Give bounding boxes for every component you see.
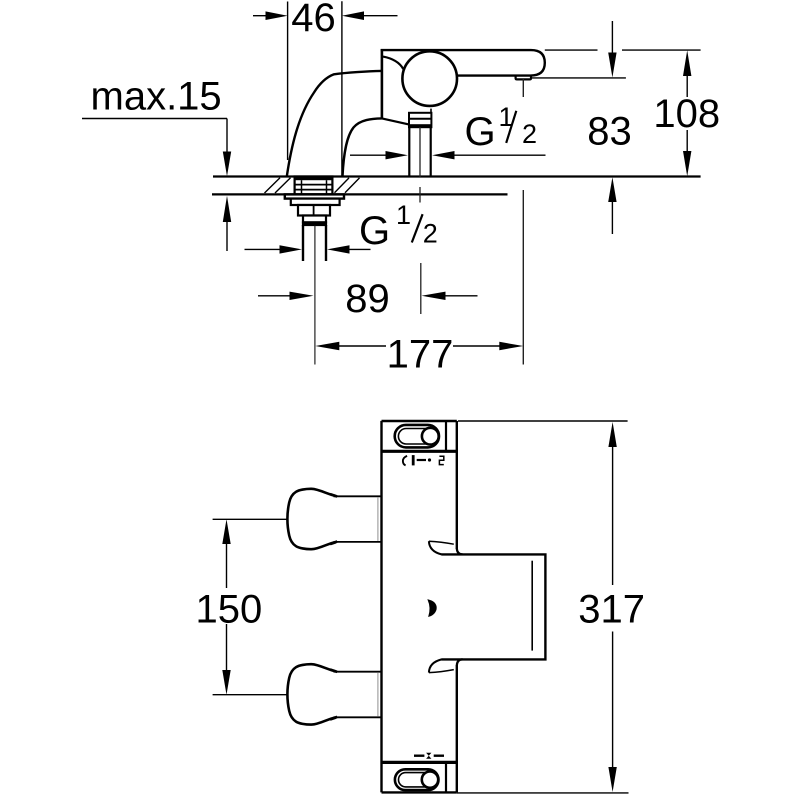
svg-text:317: 317 [578, 588, 645, 632]
svg-text:G: G [359, 209, 390, 253]
svg-text:max.15: max.15 [91, 75, 222, 119]
svg-text:1: 1 [396, 200, 411, 230]
svg-text:83: 83 [587, 109, 632, 153]
svg-text:108: 108 [653, 92, 720, 136]
svg-text:2: 2 [522, 119, 537, 149]
svg-text:89: 89 [345, 277, 390, 321]
svg-text:150: 150 [196, 587, 263, 631]
svg-text:2: 2 [423, 219, 438, 249]
svg-text:G: G [465, 110, 496, 154]
svg-text:177: 177 [387, 333, 454, 377]
svg-text:46: 46 [291, 0, 336, 40]
